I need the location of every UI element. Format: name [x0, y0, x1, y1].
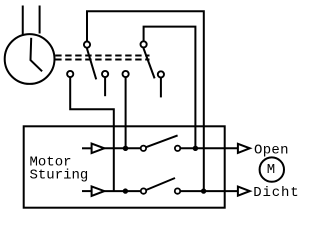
wire from S1 left contact down right and into box: [70, 77, 114, 191]
motor control box outline: [24, 126, 225, 207]
switch S2 bottom-right contact: [158, 71, 164, 77]
svg-text:Dicht: Dicht: [253, 185, 299, 201]
wire S2 common up and over to right drop: [144, 27, 196, 149]
row 2 input arrow: [92, 186, 105, 196]
svg-text:M: M: [267, 162, 275, 178]
row 2 output arrow: [238, 187, 250, 196]
junction dot row1 x126: [123, 146, 128, 151]
wire stub from S1 right contact: [104, 77, 106, 96]
relay contact row 2 left: [141, 188, 146, 193]
switch S2 bottom-left contact: [123, 71, 129, 77]
mechanical link dashed line lower: [55, 59, 149, 61]
motor M1 circle: [260, 157, 284, 181]
switch S1 bottom-right contact: [102, 71, 108, 77]
junction dot row1 x196: [193, 146, 198, 151]
clock hands: [31, 38, 43, 72]
timer clock K1 body: [5, 34, 55, 84]
switch S2 lever: [143, 48, 154, 78]
relay contact row 2 right: [175, 188, 180, 193]
row 2 wire before arrow: [82, 190, 92, 192]
row 1 wire to output arrow: [180, 147, 238, 149]
junction dot row2 x204: [201, 188, 206, 193]
switch S1 bottom-left contact: [67, 71, 73, 77]
relay contact row 1 right: [175, 146, 180, 151]
wire from S2 left contact down to row 1: [125, 77, 127, 148]
mechanical link dashed line upper: [55, 55, 149, 57]
row 2 wire arrow to contact: [104, 190, 141, 192]
junction dot row2 x125: [123, 188, 128, 193]
wire stub from S2 right contact: [160, 78, 162, 98]
svg-text:Open: Open: [254, 142, 289, 158]
row 2 wire to output arrow: [180, 190, 238, 192]
row 1 output arrow: [238, 144, 250, 153]
svg-text:Sturing: Sturing: [30, 168, 89, 184]
switch S1 lever: [87, 48, 96, 79]
relay contact row 1 left: [141, 146, 146, 151]
row 1 wire before arrow: [82, 147, 92, 149]
row 1 input arrow: [92, 144, 105, 154]
relay contact row 2 lever: [146, 178, 175, 190]
relay contact row 1 lever: [146, 135, 178, 147]
clock terminal wire left: [22, 6, 24, 35]
clock terminal wire right: [39, 6, 41, 34]
switch S2 top contact: [141, 41, 147, 47]
wire S1 common up and over to right drop: [87, 11, 204, 191]
row 1 wire arrow to contact: [104, 147, 140, 149]
switch S1 top contact: [84, 42, 90, 48]
